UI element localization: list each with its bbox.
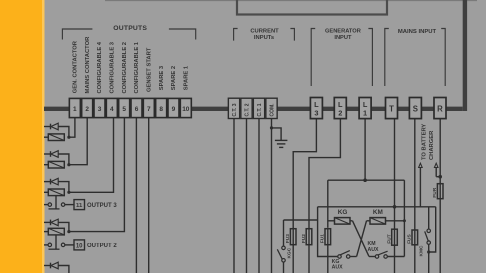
thick terminal bus line (44, 107, 463, 111)
svg-text:SPARE 1: SPARE 1 (184, 65, 190, 90)
svg-text:GEN. CONTACTOR: GEN. CONTACTOR (73, 40, 79, 93)
output 3 contact row: wire to terminal box (65, 204, 74, 206)
terminal 1 (69, 98, 80, 117)
svg-text:FUT: FUT (386, 234, 392, 243)
wire terminal 6 down (135, 118, 137, 273)
terminal box 11 (74, 200, 85, 210)
output 3 contact row: contact (44, 204, 48, 206)
wire T rail to KG AUX (318, 207, 338, 257)
wire T down (394, 119, 396, 230)
contact KM AUX (369, 256, 375, 258)
contactor coil KM (367, 220, 371, 222)
svg-text:GENERATOR: GENERATOR (325, 29, 361, 35)
terminal 9 (168, 98, 179, 117)
svg-text:FU2: FU2 (301, 234, 307, 243)
KM AUX blade (378, 251, 388, 255)
svg-text:CONFIGURABLE 3: CONFIGURABLE 3 (110, 41, 116, 93)
wire FUT down (394, 245, 396, 273)
svg-text:CONFIGURABLE 4: CONFIGURABLE 4 (97, 41, 103, 93)
fuse FU3 (290, 229, 296, 245)
svg-text:7: 7 (147, 106, 151, 113)
svg-text:CONFIGURABLE 2: CONFIGURABLE 2 (122, 42, 128, 94)
relay unit 4 (terminal 5): diode (44, 221, 50, 223)
svg-text:1: 1 (73, 106, 77, 113)
contact KGC (282, 246, 286, 250)
svg-text:11: 11 (76, 203, 83, 209)
wire S down (414, 119, 416, 230)
output 2 contact row: wire to terminal box (65, 244, 74, 246)
svg-text:INPUT: INPUT (334, 35, 352, 41)
svg-text:6: 6 (135, 106, 139, 113)
wire KGC riser (283, 220, 285, 246)
fuse FUT (392, 229, 398, 245)
T rail (318, 206, 436, 208)
wire L3 jog down (293, 119, 316, 273)
svg-text:T: T (389, 104, 394, 113)
relay unit 1 (terminal 1): junction (67, 136, 70, 139)
svg-text:FUS: FUS (407, 234, 413, 244)
terminal 3 (94, 98, 105, 117)
fuse FU1 (325, 229, 331, 245)
terminal C.T. 3 (228, 98, 239, 118)
relay unit 5 (partial, bottom): diode (44, 265, 50, 267)
terminal S (409, 98, 421, 119)
wire rail to KG/FU1 (327, 180, 329, 228)
arrow to battery charger (from T rail) (419, 167, 421, 206)
svg-text:9: 9 (172, 106, 176, 113)
svg-text:FU3: FU3 (285, 234, 291, 243)
KM coil right lead (386, 220, 405, 222)
svg-text:KMC: KMC (418, 245, 424, 256)
KG coil right lead (350, 220, 353, 222)
relay unit 2 (terminal 2): wire to terminal riser (69, 118, 87, 165)
junction T rail (393, 205, 397, 209)
wire C.T.1 down (258, 119, 260, 273)
relay unit 3 (terminal 4): coil (44, 191, 48, 193)
orange sidebar (0, 0, 45, 273)
svg-text:KM: KM (373, 209, 383, 216)
svg-text:R: R (437, 104, 443, 113)
output 2 contact row: contact (44, 244, 48, 246)
KMC blade (425, 231, 429, 241)
wire FU1 down (327, 245, 329, 273)
svg-text:MAINS CONTACTOR: MAINS CONTACTOR (85, 36, 91, 94)
junction KM coil right (403, 219, 406, 222)
device display box (cropped) (237, 0, 387, 15)
wire R down (439, 119, 441, 273)
svg-text:KG: KG (338, 209, 348, 216)
wire COM down (271, 119, 273, 273)
svg-text:4: 4 (110, 106, 114, 113)
wire T rail to KMC (428, 207, 430, 229)
contact KG AUX (338, 255, 342, 259)
svg-text:10: 10 (182, 106, 190, 113)
terminal 2 (82, 98, 93, 117)
relay unit 3 (terminal 4): diode (44, 181, 50, 183)
relay unit 3 (terminal 4): junction (67, 191, 70, 194)
contactor coil KG (328, 220, 335, 222)
wire to ground (272, 128, 282, 140)
junction COM-ground (270, 126, 273, 129)
svg-text:FUR: FUR (432, 187, 438, 197)
terminal 5 (119, 98, 130, 117)
terminal 4 (106, 98, 117, 117)
relay unit 1 (terminal 1): wire to terminal riser (69, 118, 75, 138)
svg-text:AUX: AUX (332, 265, 343, 271)
relay unit 4 (terminal 5): wire to terminal riser (69, 118, 125, 232)
wire terminal 7 down (148, 118, 150, 273)
relay unit 1 (terminal 1): diode (44, 126, 50, 128)
relay unit 3 (terminal 4): wire to terminal riser (69, 118, 114, 193)
junction KMC (427, 250, 430, 253)
junction R battery-charger (438, 175, 442, 179)
arrow to battery charger (from R) (436, 176, 440, 178)
terminal T (386, 98, 398, 119)
top edge hairline (105, 0, 477, 2)
svg-text:2: 2 (338, 109, 342, 118)
relay unit 2 (terminal 2): junction (67, 163, 70, 166)
svg-text:KGC: KGC (287, 247, 293, 258)
wire rail to KM right (403, 180, 405, 256)
wire C.T.3 down (233, 119, 235, 273)
terminal 6 (131, 98, 142, 117)
wire FUS down (414, 245, 416, 273)
terminal box 10 (74, 240, 85, 250)
L1 rail (328, 179, 405, 181)
KG AUX blade (340, 251, 350, 255)
svg-text:C.T. 1: C.T. 1 (257, 103, 263, 116)
terminal COM. (266, 98, 277, 118)
svg-text:8: 8 (159, 106, 163, 113)
svg-text:OUTPUTS: OUTPUTS (113, 25, 147, 32)
fuse FUR (437, 184, 443, 199)
svg-text:MAINS INPUT: MAINS INPUT (398, 29, 437, 35)
wire unit5 to bottom edge (58, 266, 69, 273)
wire L2 jog down (309, 119, 340, 273)
KGC blade (277, 249, 282, 259)
terminal L3 (310, 98, 322, 119)
svg-text:AUX: AUX (368, 247, 379, 253)
ground symbol (275, 139, 288, 141)
svg-text:10: 10 (76, 243, 83, 249)
svg-text:3: 3 (98, 106, 102, 113)
wire KMC down (428, 244, 430, 273)
svg-text:FU1: FU1 (320, 234, 326, 243)
svg-text:TO BATTERY: TO BATTERY (421, 124, 427, 160)
terminal L1 (359, 98, 371, 119)
svg-text:5: 5 (122, 106, 126, 113)
relay unit 4 (terminal 5): junction (67, 230, 70, 233)
relay unit 1 (terminal 1): coil (44, 136, 48, 138)
svg-text:COM.: COM. (270, 103, 276, 117)
relay unit 2 (terminal 2): diode (44, 153, 50, 155)
fuse FU2 (306, 229, 312, 245)
svg-text:S: S (413, 104, 418, 113)
interlock cross wire KM-KGAUX (357, 221, 367, 257)
svg-text:OUTPUT 3: OUTPUT 3 (87, 203, 117, 209)
junction L1 rail (363, 178, 367, 182)
svg-text:C.T. 3: C.T. 3 (232, 103, 238, 116)
svg-text:CHARGER: CHARGER (429, 130, 435, 160)
relay unit 4 (terminal 5): coil (44, 231, 48, 233)
svg-text:GENSET START: GENSET START (147, 47, 153, 92)
wire KGC down (283, 262, 285, 273)
svg-text:1: 1 (363, 109, 367, 118)
svg-text:CONFIGURABLE 1: CONFIGURABLE 1 (134, 41, 140, 93)
interlock cross wire KG-KMAUX (353, 221, 370, 257)
terminal L2 (334, 98, 346, 119)
svg-text:2: 2 (85, 106, 89, 113)
terminal C.T. 2 (241, 98, 252, 118)
fuse FUS (412, 230, 418, 245)
terminal 10 (180, 98, 191, 117)
wire C.T.2 down (246, 119, 248, 273)
svg-text:C.T. 2: C.T. 2 (245, 103, 251, 116)
svg-text:CURRENT: CURRENT (250, 29, 279, 35)
wire L1 down (364, 119, 366, 181)
svg-text:INPUTs: INPUTs (254, 35, 274, 41)
wire KMC bypass loop (429, 207, 436, 252)
svg-text:OUTPUT 2: OUTPUT 2 (87, 243, 117, 249)
relay unit 2 (terminal 2): coil (44, 164, 48, 166)
KGC rail (284, 219, 318, 221)
terminal 7 (143, 98, 154, 117)
svg-text:3: 3 (314, 109, 318, 118)
terminal R (434, 98, 446, 119)
svg-text:SPARE 3: SPARE 3 (159, 65, 165, 90)
terminal C.T. 1 (253, 98, 264, 118)
terminal 8 (156, 98, 167, 117)
svg-text:SPARE 2: SPARE 2 (171, 66, 177, 90)
